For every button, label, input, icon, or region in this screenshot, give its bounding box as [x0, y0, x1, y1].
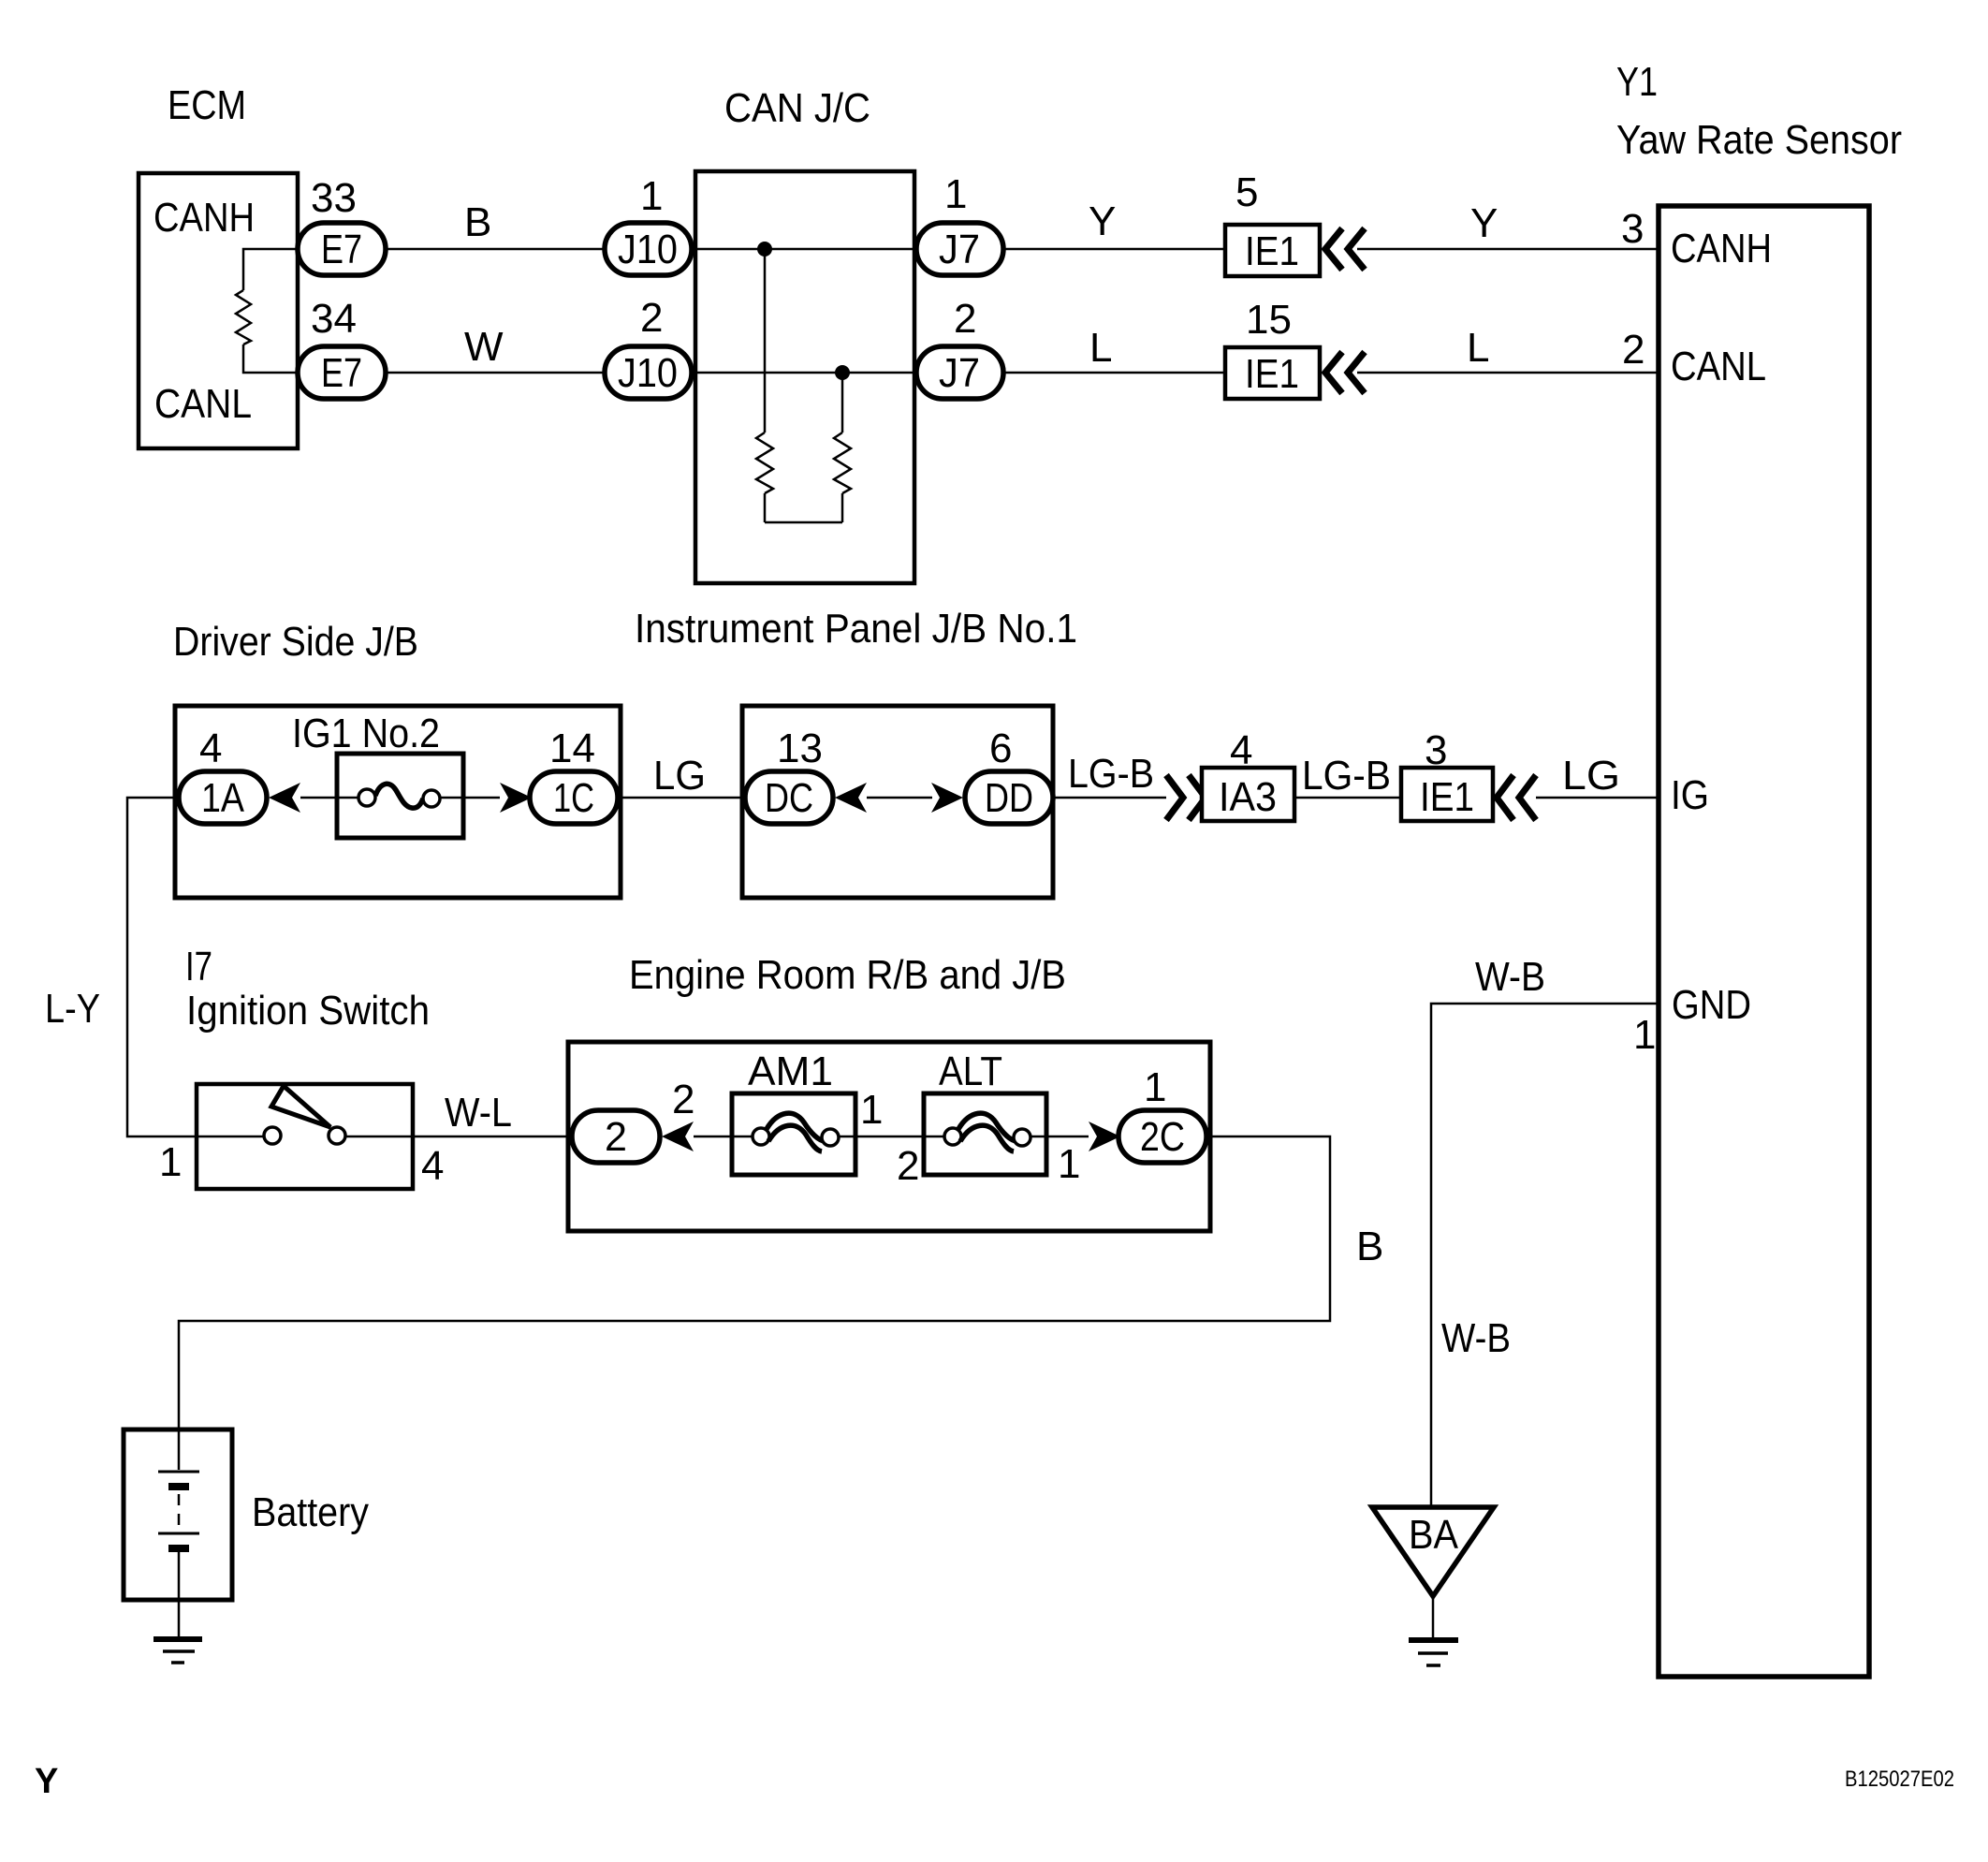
svg-text:E7: E7 [321, 227, 362, 272]
svg-text:3: 3 [1621, 206, 1644, 252]
fusible link AM1 box [732, 1093, 855, 1175]
connector IA3 [1202, 768, 1294, 821]
svg-text:CANL: CANL [154, 381, 252, 427]
svg-text:LG: LG [1562, 753, 1620, 799]
connector E7 pin 33 [298, 223, 386, 275]
connector 2 [572, 1110, 660, 1163]
svg-text:L: L [1089, 325, 1112, 371]
svg-text:L: L [1467, 325, 1489, 371]
svg-text:CANH: CANH [153, 195, 255, 241]
svg-text:2: 2 [605, 1114, 627, 1160]
svg-text:Driver Side J/B: Driver Side J/B [173, 619, 418, 665]
double chevron in-connector marker (CANH line) [1325, 228, 1342, 270]
svg-text:2: 2 [640, 295, 663, 341]
fuse element curve [375, 784, 423, 808]
svg-text:33: 33 [311, 175, 357, 221]
AM1 terminal circle right [822, 1129, 839, 1146]
svg-text:LG: LG [653, 753, 706, 799]
arrow marker toward 1C [500, 783, 532, 813]
svg-text:Y1: Y1 [1616, 59, 1658, 105]
svg-text:J10: J10 [618, 350, 678, 396]
svg-text:CANH: CANH [1671, 226, 1772, 271]
terminating resistor 2 inside CAN J/C [834, 433, 851, 493]
svg-text:J7: J7 [939, 350, 980, 396]
switch contact circle left [264, 1127, 281, 1144]
AM1 terminal circle left [753, 1128, 769, 1145]
svg-text:IE1: IE1 [1245, 228, 1299, 274]
arrow marker toward 2C [1089, 1122, 1120, 1151]
wire W-L (switch to Engine Room) [413, 1136, 572, 1138]
svg-text:CANL: CANL [1671, 344, 1766, 389]
svg-text:J7: J7 [939, 227, 980, 272]
connector 1C [530, 771, 618, 824]
svg-text:1: 1 [159, 1139, 182, 1185]
fusible link ALT box [924, 1093, 1046, 1175]
ALT fusible element [958, 1113, 1016, 1141]
wire arrow to AM1 [694, 1136, 732, 1138]
bottom connecting wire between resistors [765, 521, 842, 524]
arrow marker toward connector 2 [662, 1122, 694, 1151]
svg-text:I7: I7 [185, 944, 212, 990]
double chevron in-connector marker (IG line) [1497, 775, 1513, 820]
double chevron out-connector marker (to IA3) [1166, 775, 1183, 820]
svg-text:ALT: ALT [939, 1048, 1002, 1094]
junction node on CANL [835, 365, 850, 380]
svg-text:L-Y: L-Y [45, 986, 100, 1032]
svg-text:1: 1 [1144, 1064, 1166, 1110]
ECM box [139, 173, 298, 448]
connector DD [965, 771, 1053, 824]
terminating resistor 1 inside CAN J/C [756, 433, 773, 493]
connector IE1 (IG line) [1401, 768, 1493, 821]
svg-text:Y: Y [1470, 200, 1498, 246]
wire below resistor 2 [841, 493, 844, 522]
battery dashed center link [178, 1494, 181, 1530]
ALT terminal circle left [944, 1128, 961, 1145]
connector J10 pin 1 [605, 223, 692, 275]
arrow marker toward DC [835, 783, 867, 813]
wire Y (J7 to IE1) [1003, 248, 1225, 251]
battery plate long 1 [158, 1471, 199, 1473]
fuse internal lead wires [337, 797, 358, 799]
svg-text:Engine Room R/B and J/B: Engine Room R/B and J/B [629, 952, 1066, 998]
svg-text:E7: E7 [321, 350, 362, 396]
svg-text:IE1: IE1 [1245, 351, 1299, 397]
svg-text:AM1: AM1 [748, 1048, 833, 1094]
svg-text:1: 1 [1058, 1141, 1080, 1187]
fuse terminal circle right [423, 790, 440, 807]
svg-text:5: 5 [1235, 169, 1258, 215]
Engine Room box [568, 1042, 1210, 1231]
switch contact circle right [329, 1127, 345, 1144]
connector DC [745, 771, 833, 824]
svg-text:IA3: IA3 [1219, 774, 1277, 820]
svg-text:2: 2 [672, 1077, 694, 1122]
svg-text:34: 34 [311, 296, 357, 342]
arrow marker toward 1A [269, 783, 300, 813]
svg-text:ECM: ECM [168, 82, 246, 128]
svg-text:LG-B: LG-B [1068, 751, 1154, 797]
ALT internal lead wires [924, 1136, 944, 1138]
branch wire from CANL node [841, 373, 844, 433]
svg-text:1: 1 [860, 1087, 883, 1133]
svg-text:W-B: W-B [1475, 954, 1545, 1000]
fuse terminal circle left [358, 789, 375, 806]
connector IE1 (CANH line) [1225, 225, 1320, 276]
switch internal lead left [197, 1136, 264, 1138]
wire W (ECM to CAN J/C) [386, 372, 606, 374]
wire B (ECM to CAN J/C) [386, 248, 606, 251]
svg-text:LG-B: LG-B [1302, 753, 1391, 799]
Driver Side J/B box [175, 706, 621, 898]
ground point BA triangle [1372, 1507, 1494, 1596]
svg-text:1: 1 [944, 171, 967, 217]
svg-text:Yaw Rate Sensor: Yaw Rate Sensor [1616, 117, 1902, 163]
wire AM1 to ALT [855, 1136, 924, 1138]
wire stub CANH to resistor [243, 249, 298, 290]
double chevron in-connector marker (CANL line) [1325, 352, 1342, 393]
svg-text:IE1: IE1 [1420, 774, 1474, 820]
connector 1A [179, 771, 267, 824]
battery box [124, 1429, 232, 1600]
svg-text:DC: DC [765, 775, 813, 821]
svg-text:Instrument Panel J/B No.1: Instrument Panel J/B No.1 [635, 606, 1077, 652]
AM1 fusible element [767, 1113, 825, 1141]
svg-text:B: B [464, 199, 491, 245]
battery internal bottom lead [178, 1550, 181, 1636]
svg-text:1: 1 [640, 173, 663, 219]
battery internal top lead [178, 1429, 181, 1470]
svg-text:6: 6 [989, 726, 1012, 771]
svg-text:15: 15 [1246, 297, 1292, 343]
svg-text:2: 2 [897, 1143, 919, 1189]
connector J7 pin 2 [916, 346, 1003, 399]
battery plate short 2 [168, 1545, 189, 1552]
internal wire CANL row [692, 372, 916, 374]
arrow marker toward DD [931, 783, 963, 813]
junction node on CANH [757, 242, 772, 257]
svg-text:W-L: W-L [445, 1090, 512, 1136]
svg-text:BA: BA [1409, 1512, 1459, 1558]
svg-text:13: 13 [777, 726, 823, 771]
CAN J/C box [695, 171, 914, 583]
svg-text:Battery: Battery [252, 1489, 369, 1535]
battery plate long 2 [158, 1532, 199, 1535]
BA ground symbol [1409, 1637, 1458, 1643]
wire LG (1C to Instrument Panel J/B) [618, 797, 742, 799]
battery plate short 1 [168, 1483, 189, 1490]
internal wire CANH row [692, 248, 916, 251]
svg-text:Ignition Switch: Ignition Switch [186, 988, 430, 1034]
svg-text:1C: 1C [553, 775, 594, 821]
connector J10 pin 2 [605, 346, 692, 399]
connector IE1 (CANL line) [1225, 347, 1320, 399]
wire fuse to arrow [463, 797, 500, 799]
svg-text:Y: Y [1089, 198, 1116, 244]
wire B (2C to battery) [179, 1136, 1330, 1429]
Instrument Panel J/B box [742, 706, 1053, 898]
svg-text:IG: IG [1671, 772, 1709, 818]
svg-text:2: 2 [1622, 327, 1644, 373]
wire Y (IE1 to yaw rate sensor) [1357, 248, 1659, 251]
svg-text:B: B [1356, 1224, 1383, 1269]
svg-text:1A: 1A [201, 775, 245, 821]
svg-text:B125027E02: B125027E02 [1845, 1767, 1954, 1792]
svg-text:W-B: W-B [1441, 1315, 1511, 1361]
wire LG (IE1 to yaw rate sensor IG) [1536, 797, 1659, 799]
AM1 internal lead wires [732, 1136, 753, 1138]
svg-text:W: W [464, 324, 504, 370]
connector 2C [1118, 1110, 1206, 1163]
branch wire from CANH node [764, 249, 767, 433]
svg-text:1: 1 [1633, 1012, 1656, 1058]
connector E7 pin 34 [298, 346, 386, 399]
wire L (J7 to IE1) [1003, 372, 1225, 374]
ALT terminal circle right [1014, 1129, 1031, 1146]
battery ground symbol [153, 1636, 202, 1642]
wire ALT to arrow [1046, 1136, 1089, 1138]
switch lever [271, 1086, 330, 1127]
svg-text:Y: Y [35, 1762, 58, 1801]
svg-text:GND: GND [1672, 982, 1751, 1028]
wire arrow to fuse box [300, 797, 337, 799]
terminating resistor inside ECM [236, 290, 251, 345]
wire L-Y (1A to ignition switch) [127, 798, 197, 1136]
svg-text:CAN J/C: CAN J/C [724, 85, 870, 131]
wire LG-B (DD to IA3) [1053, 797, 1166, 799]
svg-text:4: 4 [199, 726, 222, 771]
svg-text:4: 4 [421, 1143, 444, 1189]
wire BA triangle to ground [1432, 1596, 1435, 1637]
svg-text:IG1 No.2: IG1 No.2 [292, 711, 440, 756]
wire below resistor 1 [764, 493, 767, 522]
svg-text:J10: J10 [618, 227, 678, 272]
wire stub resistor to CANL [243, 345, 298, 373]
svg-text:DD: DD [985, 775, 1033, 821]
wire LG-B (IA3 to IE1) [1294, 797, 1401, 799]
fuse IG1 No.2 box [337, 754, 463, 838]
wire DC arrow to DD arrow [867, 797, 932, 799]
wire L (IE1 to yaw rate sensor) [1357, 372, 1659, 374]
yaw rate sensor box [1659, 206, 1869, 1677]
ignition switch I7 box [197, 1084, 413, 1189]
wire W-B (yaw rate sensor GND) [1431, 1004, 1659, 1505]
svg-text:2C: 2C [1140, 1114, 1185, 1160]
switch internal lead right [345, 1136, 413, 1138]
svg-text:2: 2 [954, 296, 976, 342]
connector J7 pin 1 [916, 223, 1003, 275]
svg-text:14: 14 [549, 726, 595, 771]
